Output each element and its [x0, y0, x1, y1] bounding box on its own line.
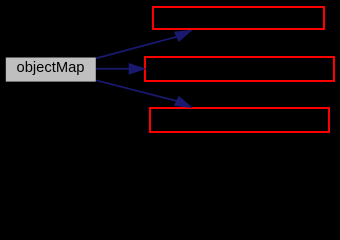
svg-text:objectMap: objectMap: [17, 59, 85, 76]
edge arrow 1: objectMap -> top node (wire): [96, 30, 191, 58]
node bottom (unlabeled, red border): [150, 108, 329, 132]
arrowhead 2: [129, 64, 145, 74]
node middle (unlabeled, red border): [145, 57, 334, 81]
edge arrow 3: objectMap -> bottom node (wire): [96, 80, 191, 107]
node top (unlabeled, red border): [153, 7, 324, 29]
edge arrow 2: objectMap -> middle node (wire): [96, 64, 145, 74]
node objectMap (current node, grey fill): [6, 58, 96, 82]
arrowhead 3: [175, 97, 192, 108]
arrowhead 1: [175, 30, 192, 41]
